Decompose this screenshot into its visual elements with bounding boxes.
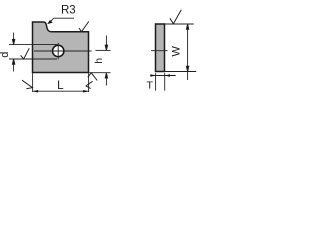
T extension line right: [164, 73, 166, 91]
hole centerline horizontal: [34, 50, 92, 52]
R3 leader arrowhead: [47, 20, 52, 24]
svg-text:W: W: [171, 46, 183, 57]
hole H1: [53, 45, 64, 56]
side view body: [156, 24, 165, 72]
surface finish check (top face): [79, 21, 89, 31]
h dimension line + arrows: [105, 36, 108, 86]
hole centerline vertical: [57, 43, 59, 60]
T extension line left: [155, 73, 157, 91]
d extension line bottom: [9, 58, 57, 60]
surface finish check (side view top): [170, 10, 181, 24]
T dimension line: [150, 75, 176, 77]
T arrowhead right (points left at ext): [165, 74, 170, 77]
surface finish check (bottom face, flipped): [88, 73, 98, 81]
d dimension line bottom arrow: [12, 59, 15, 72]
W top extension: [165, 23, 194, 25]
svg-text:R3: R3: [61, 4, 76, 16]
W dimension line + arrows: [186, 24, 189, 80]
d dimension line top arrow: [12, 33, 15, 45]
L dimension line: [33, 90, 89, 92]
L arrowhead left: [33, 90, 39, 93]
part body (front view): [33, 22, 89, 73]
svg-text:h: h: [93, 58, 105, 64]
h bottom extension (bottom edge extended): [89, 72, 110, 74]
svg-text:d: d: [0, 52, 11, 58]
surface finish check (left face, rotated): [22, 80, 32, 89]
T arrowhead left (points right at ext): [150, 74, 155, 77]
W bottom extension: [165, 71, 196, 73]
svg-text:L: L: [57, 80, 64, 92]
d extension line top: [9, 44, 58, 46]
R3 leader: [49, 18, 74, 23]
svg-text:T: T: [147, 80, 154, 92]
L extension line right: [88, 73, 90, 92]
surface finish check (right face, rotated): [86, 81, 93, 88]
L arrowhead right: [83, 90, 89, 93]
h top extension (centerline extended): [96, 49, 111, 51]
surface finish check (hole, between d lines): [21, 48, 30, 59]
side view hole centerline tick: [151, 50, 168, 52]
L extension line left: [32, 73, 34, 92]
